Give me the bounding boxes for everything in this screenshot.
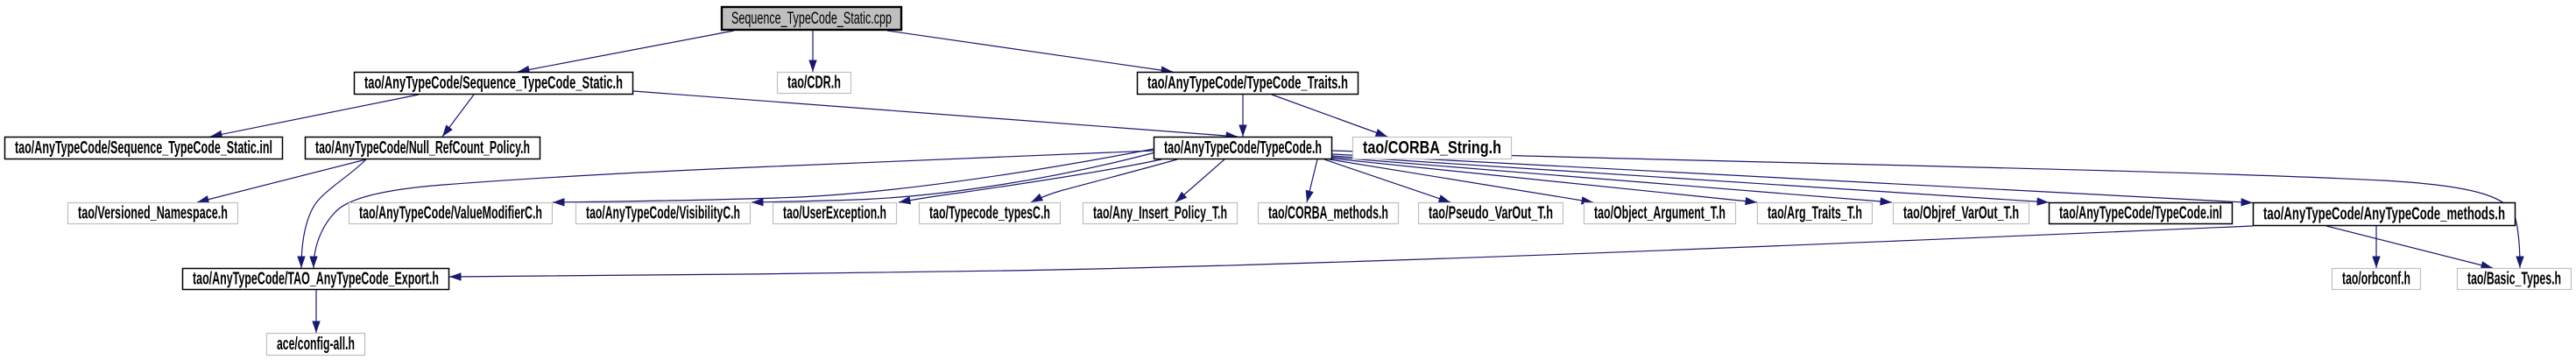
svg-text:tao/CDR.h: tao/CDR.h (787, 74, 841, 93)
node N18: tao/Objref_VarOut_T.h (1894, 203, 2029, 224)
svg-text:tao/AnyTypeCode/Null_RefCount_: tao/AnyTypeCode/Null_RefCount_Policy.h (315, 138, 530, 158)
svg-text:tao/AnyTypeCode/VisibilityC.h: tao/AnyTypeCode/VisibilityC.h (586, 204, 740, 223)
wire edge N3->N7 (1272, 95, 1387, 137)
svg-text:tao/orbconf.h: tao/orbconf.h (2342, 270, 2410, 289)
wire edge N6->N21 (314, 151, 1154, 268)
wire edge N6->N10 (752, 153, 1154, 203)
wire edge N6->N17 (1332, 159, 1757, 202)
wire edge N3->N6 (1242, 95, 1244, 137)
node N1: tao/AnyTypeCode/Sequence_TypeCode_Static.h (355, 73, 633, 95)
wire edge N20->N22 (2375, 226, 2377, 268)
wire edge N0->N1 (518, 31, 734, 72)
svg-text:tao/Any_Insert_Policy_T.h: tao/Any_Insert_Policy_T.h (1093, 204, 1227, 223)
wire edge N20->N23 (2326, 226, 2493, 268)
wire edge N6->N23 (1332, 151, 2520, 268)
node N23: tao/Basic_Types.h (2458, 269, 2572, 290)
wire edge N0->N3 (887, 31, 1173, 72)
svg-text:tao/Object_Argument_T.h: tao/Object_Argument_T.h (1594, 204, 1726, 223)
svg-text:tao/AnyTypeCode/Sequence_TypeC: tao/AnyTypeCode/Sequence_TypeCode_Static… (15, 138, 272, 158)
node N6: tao/AnyTypeCode/TypeCode.h (1154, 138, 1332, 159)
svg-text:Sequence_TypeCode_Static.cpp: Sequence_TypeCode_Static.cpp (731, 10, 892, 28)
wire edge N5->N8 (197, 159, 366, 202)
wire edge N6->N15 (1324, 159, 1450, 202)
node N19: tao/AnyTypeCode/TypeCode.inl (2050, 203, 2233, 224)
node N16: tao/Object_Argument_T.h (1584, 203, 1736, 224)
svg-text:tao/AnyTypeCode/TypeCode_Trait: tao/AnyTypeCode/TypeCode_Traits.h (1147, 74, 1348, 93)
node N13: tao/Any_Insert_Policy_T.h (1083, 203, 1238, 224)
wire edge N6->N18 (1332, 158, 1892, 203)
node N5: tao/AnyTypeCode/Null_RefCount_Policy.h (306, 138, 540, 159)
wire edge N20->N21 (449, 226, 2253, 277)
svg-text:tao/UserException.h: tao/UserException.h (783, 204, 886, 223)
svg-text:tao/Basic_Types.h: tao/Basic_Types.h (2467, 270, 2561, 289)
node N4: tao/AnyTypeCode/Sequence_TypeCode_Static.inl (5, 138, 283, 159)
wire edge N6->N9 (553, 149, 1154, 202)
node N2: tao/CDR.h (778, 73, 851, 94)
wire edge N1->N5 (442, 95, 474, 137)
svg-text:ace/config-all.h: ace/config-all.h (277, 335, 355, 354)
node N0: Sequence_TypeCode_Static.cpp (722, 7, 901, 30)
svg-text:tao/CORBA_methods.h: tao/CORBA_methods.h (1268, 204, 1388, 223)
wire edge N0->N2 (812, 31, 814, 72)
node N17: tao/Arg_Traits_T.h (1758, 203, 1873, 224)
svg-text:tao/AnyTypeCode/TypeCode.h: tao/AnyTypeCode/TypeCode.h (1164, 138, 1322, 158)
node N15: tao/Pseudo_VarOut_T.h (1419, 203, 1563, 224)
node N14: tao/CORBA_methods.h (1259, 203, 1399, 224)
wire edge N6->N20 (1332, 154, 2253, 203)
node N21: tao/AnyTypeCode/TAO_AnyTypeCode_Export.h (183, 269, 449, 290)
svg-text:tao/Arg_Traits_T.h: tao/Arg_Traits_T.h (1768, 204, 1862, 223)
svg-text:tao/CORBA_String.h: tao/CORBA_String.h (1363, 138, 1501, 158)
node N3: tao/AnyTypeCode/TypeCode_Traits.h (1138, 73, 1359, 95)
svg-text:tao/AnyTypeCode/Sequence_TypeC: tao/AnyTypeCode/Sequence_TypeCode_Static… (364, 74, 623, 93)
svg-text:tao/AnyTypeCode/ValueModifierC: tao/AnyTypeCode/ValueModifierC.h (359, 204, 542, 223)
node N22: tao/orbconf.h (2333, 269, 2421, 290)
wire edge N21->N24 (315, 290, 317, 333)
wire edge N6->N16 (1330, 159, 1593, 202)
svg-text:tao/Pseudo_VarOut_T.h: tao/Pseudo_VarOut_T.h (1429, 204, 1553, 223)
node N24: ace/config-all.h (267, 334, 365, 356)
wire edge N6->N19 (1332, 156, 2049, 202)
node N9: tao/AnyTypeCode/ValueModifierC.h (349, 203, 553, 224)
svg-text:tao/Versioned_Namespace.h: tao/Versioned_Namespace.h (78, 204, 228, 223)
svg-text:tao/AnyTypeCode/TypeCode.inl: tao/AnyTypeCode/TypeCode.inl (2059, 204, 2222, 223)
wire edge N6->N14 (1307, 159, 1317, 202)
wire edge N6->N13 (1175, 159, 1224, 202)
wire edge N1->N4 (210, 95, 419, 137)
wire edge N6->N11 (899, 159, 1161, 202)
node N12: tao/Typecode_typesC.h (920, 203, 1061, 224)
node N8: tao/Versioned_Namespace.h (68, 203, 238, 224)
svg-text:tao/AnyTypeCode/AnyTypeCode_me: tao/AnyTypeCode/AnyTypeCode_methods.h (2263, 205, 2505, 224)
wire edge N5->N21 (301, 159, 366, 268)
wire edge N1->N6 (633, 91, 1238, 137)
svg-text:tao/Objref_VarOut_T.h: tao/Objref_VarOut_T.h (1903, 204, 2019, 223)
node N20: tao/AnyTypeCode/AnyTypeCode_methods.h (2254, 203, 2516, 226)
svg-text:tao/Typecode_typesC.h: tao/Typecode_typesC.h (929, 204, 1050, 223)
node N10: tao/AnyTypeCode/VisibilityC.h (576, 203, 751, 224)
node N7: tao/CORBA_String.h (1353, 138, 1512, 159)
svg-text:tao/AnyTypeCode/TAO_AnyTypeCod: tao/AnyTypeCode/TAO_AnyTypeCode_Export.h (193, 270, 439, 289)
node N11: tao/UserException.h (773, 203, 897, 224)
wire edge N6->N12 (1031, 159, 1177, 202)
